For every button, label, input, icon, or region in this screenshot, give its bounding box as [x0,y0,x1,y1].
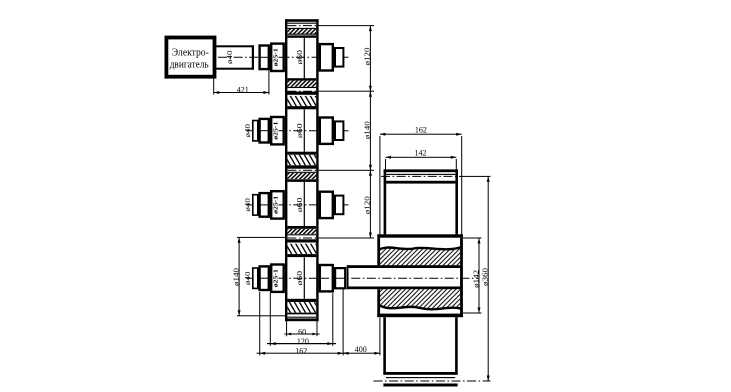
svg-text:двигатель: двигатель [170,59,209,70]
svg-text:ø140: ø140 [362,121,371,139]
svg-text:Электро-: Электро- [172,47,209,58]
svg-text:120: 120 [297,337,309,346]
svg-text:142: 142 [415,149,427,158]
svg-text:421: 421 [237,86,249,95]
svg-text:162: 162 [295,347,307,356]
svg-text:ø120: ø120 [362,47,371,65]
svg-text:ø142: ø142 [471,270,480,288]
svg-text:ø360: ø360 [480,268,489,286]
svg-text:162: 162 [415,126,427,135]
svg-text:ø40: ø40 [226,50,234,64]
svg-text:400: 400 [355,345,367,354]
svg-text:60: 60 [298,327,306,336]
svg-text:ø40: ø40 [244,271,252,285]
svg-text:ø40: ø40 [244,123,252,137]
svg-text:ø60: ø60 [295,123,304,138]
svg-text:ø60: ø60 [295,50,304,65]
svg-text:ø60: ø60 [295,197,304,212]
svg-text:ø140: ø140 [232,268,241,286]
svg-text:ø40: ø40 [244,198,252,212]
svg-text:ø120: ø120 [362,196,371,214]
svg-text:ø60: ø60 [295,271,304,286]
